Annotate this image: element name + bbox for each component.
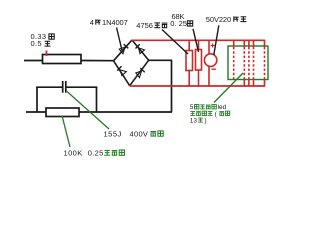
label 155J 400V capacitor (green): [104, 129, 164, 138]
LED string 3 bottom stub (red): [248, 79, 250, 86]
resistor R1 0.33 ohm body: [43, 55, 82, 64]
wire DC+ top rail (red): [132, 39, 266, 41]
LED string 2 top stub (red): [243, 41, 245, 48]
wire cap branch top left: [36, 86, 62, 88]
svg-text:50V220: 50V220: [206, 15, 231, 24]
label 4x 1N4007: [90, 18, 128, 27]
label LED strings line 3 (green): [190, 117, 207, 124]
wire R1 to bridge left node: [81, 60, 114, 62]
svg-text:400V: 400V: [130, 129, 149, 138]
LED panel enclosure (green box): [228, 46, 268, 80]
label 0.5 W: [31, 39, 51, 48]
resistor R4 68K body: [196, 50, 202, 71]
svg-text:4756: 4756: [136, 21, 153, 30]
svg-text:): ): [204, 117, 206, 124]
wire bridge right node to right vertical: [149, 59, 173, 61]
capacitor C2 lead bottom (red): [208, 66, 210, 86]
label 50V220uF: [206, 15, 247, 24]
capacitor C1 155J plates: [63, 81, 66, 93]
wire cap branch right leg: [96, 87, 98, 113]
label 100K 0.25W resistor (green): [64, 148, 125, 157]
LED string 1 (dashed red): [233, 47, 235, 79]
label LED strings line 2 (green): [190, 111, 230, 118]
wire right vertical down: [171, 60, 173, 112]
svg-text:13: 13: [190, 117, 198, 124]
LED string 2 bottom stub (red): [243, 79, 245, 86]
leader line (green) for R2 label: [62, 116, 70, 148]
capacitor C2 electrolytic lead top (red): [208, 41, 210, 55]
wire bottom AC return: [26, 111, 172, 113]
label LED strings line 1 (green): [190, 104, 227, 111]
wire cap branch left leg: [36, 87, 38, 113]
resistor R2 100K body: [46, 108, 79, 117]
LED string 3 (dashed red): [248, 47, 250, 79]
label 0.33 ohm: [31, 32, 55, 41]
resistor R3 68K lead top: [188, 41, 190, 52]
wire right leg bottom stub (red): [264, 80, 266, 87]
svg-text:1N4007: 1N4007: [102, 18, 128, 27]
resistor R4 68K lead top: [198, 41, 200, 51]
red tick marker on R1: [46, 51, 48, 57]
LED string 5 (dashed red, right leg): [264, 47, 266, 80]
svg-text:155J: 155J: [104, 129, 122, 138]
bridge rectifier: diode D1 (left-top arm): [114, 40, 133, 61]
wire AC input top-left: [24, 60, 43, 62]
capacitor C2 electrolytic body circle (red): [204, 54, 216, 67]
LED string 4 bottom stub (red): [253, 79, 255, 86]
bridge rectifier: diode D3 (bottom-left arm): [114, 61, 130, 86]
svg-text:0.25: 0.25: [88, 148, 104, 157]
resistor R3 68K body: [186, 51, 193, 71]
capacitor C2 minus sign (red): [212, 68, 216, 70]
LED string 2 (dashed red): [243, 47, 245, 79]
resistor R3 68K lead bottom: [188, 71, 190, 87]
capacitor C2 plus sign (red): [211, 44, 215, 48]
svg-text:led: led: [218, 104, 227, 111]
wire DC- bottom rail (red): [130, 85, 266, 87]
leader line (green) for LED label: [214, 73, 243, 103]
leader line from 50V220uF label to C2: [214, 25, 219, 55]
svg-text:100K: 100K: [64, 148, 83, 157]
svg-text:5: 5: [190, 104, 194, 111]
LED string 4 (dashed red): [253, 47, 255, 79]
wire cap branch top right: [67, 86, 98, 88]
LED string 1 top stub (red): [233, 41, 235, 48]
svg-text:4: 4: [90, 18, 94, 27]
leader line from 4756 label to R3: [162, 30, 188, 55]
svg-text:0. 25: 0. 25: [170, 19, 187, 28]
wire right leg top stub (red): [264, 40, 266, 47]
leader line from 68K label to R4: [193, 29, 199, 52]
resistor R4 68K lead bottom: [198, 70, 200, 86]
svg-text:0.5: 0.5: [31, 39, 42, 48]
leader line from 1N4007 label to D1: [117, 28, 123, 52]
label 0.25 W: [170, 19, 192, 28]
LED string 3 top stub (red): [248, 41, 250, 48]
label 4756 zener: [136, 21, 167, 30]
bridge rectifier: diode D4 (bottom-right arm): [130, 60, 149, 85]
LED string 4 top stub (red): [253, 41, 255, 48]
bridge rectifier: diode D2 (top-right arm): [132, 40, 149, 60]
leader line (green) for C1 label: [67, 92, 109, 130]
